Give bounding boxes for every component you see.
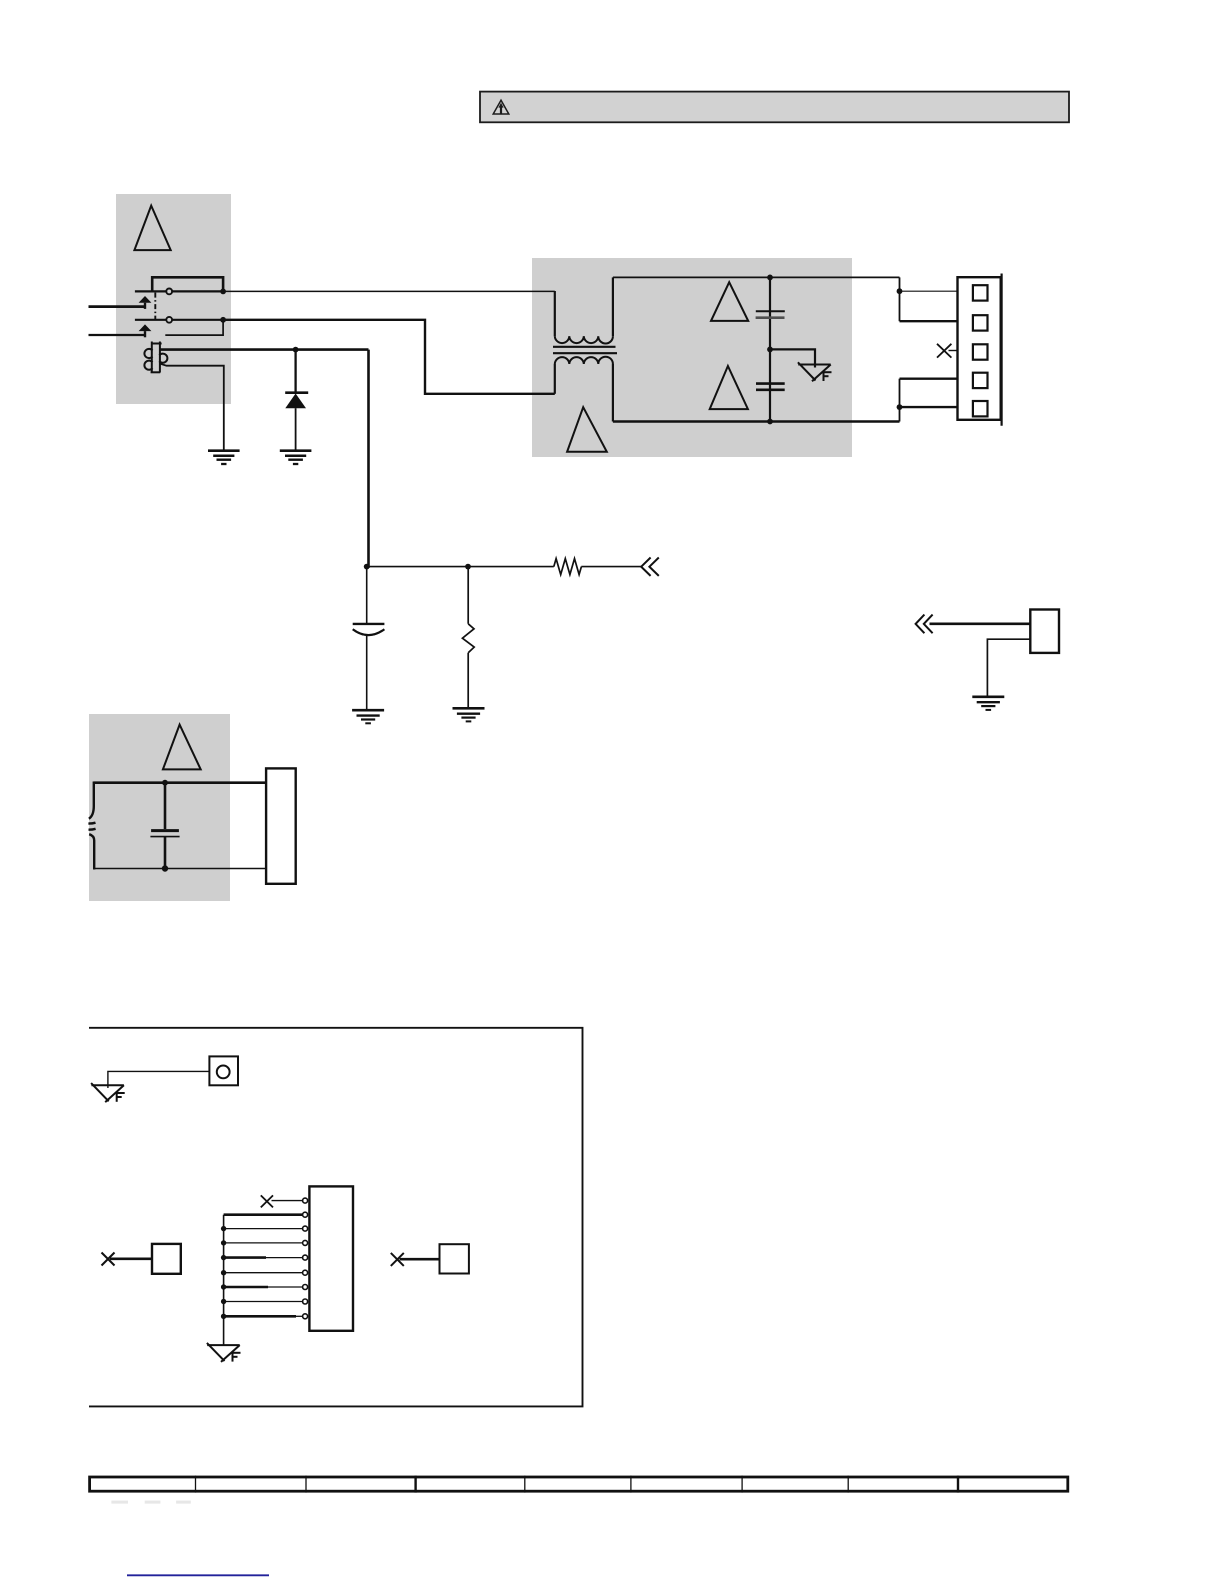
module block A1 [1030,610,1059,653]
wire: J3 pin8 [224,1301,303,1303]
capacitor C3 [353,567,385,710]
wire: ground bus vertical [223,1215,225,1345]
capacitor C2 [756,349,785,421]
warning triangle 3 [710,366,748,409]
warning banner box [480,92,1069,123]
switch S1 mechanical bracket [152,277,223,291]
gray region: mains input block [116,194,231,404]
node: switch output 1 [220,289,226,295]
switch S1 pole 1 [135,289,223,295]
wire: J3 pin1 [272,1200,303,1202]
wire: module ground leg [987,639,1030,696]
connector J1 pin 2 [973,315,988,330]
connector J1 pin 3 [973,344,988,359]
connector J2 body [266,768,296,883]
wire: output bottom rail [613,420,900,422]
node: bus junction pin5 [221,1255,226,1260]
wire: bottom rail to connector pins [900,379,958,422]
switch S1 lower bracket [165,320,223,335]
wire: line input L [89,305,147,308]
node: bus junction pin9 [221,1314,226,1319]
block: right small square [440,1244,469,1273]
faint scan marks [111,1501,190,1504]
connector J1 body [958,277,1001,420]
ground: earth under diode D1 [280,451,312,464]
capacitor C4 [150,783,179,869]
capacitor C1 [756,277,785,349]
control board outline box (open on left) [89,1028,583,1407]
wire: J3 pin6 [224,1272,303,1274]
inductor L1 common-mode choke [144,342,167,373]
wire: J3 pin7 [224,1286,303,1289]
wire: output top rail [613,276,900,278]
ground: frame ground FG3 [207,1343,241,1362]
wire: J3 pin2 to bus [224,1213,303,1216]
off-page connector chevron left [641,558,659,576]
node: bus junction pin4 [221,1240,226,1245]
warning triangle 4 [567,407,607,452]
node: bus junction pin6 [221,1270,226,1275]
connector J3 pin circles [303,1198,308,1319]
wire: J3 pin4 [224,1242,303,1244]
connector J1 pin 4 [973,373,988,388]
resistor R2 (varistor) [462,567,474,708]
wire: top rail to connector pins [900,277,958,321]
wire: R1 to off-page [581,566,642,568]
wire: off-page to module [930,622,1031,625]
switch S1 pole 2 [135,317,223,323]
block: left small square [152,1244,181,1274]
ground: earth under R2 [453,708,485,721]
title block table [90,1476,1068,1493]
wire: J3 pin9 [224,1315,303,1318]
wire: sense net horizontal [367,566,554,568]
node: cap branch [364,564,370,570]
warning triangle icon [493,100,509,114]
line input L arrow [139,296,152,309]
node: bus junction pin7 [221,1284,226,1289]
inductor L2 at page edge [88,782,95,870]
ground: earth under C3 [352,710,384,723]
off-page connector chevron right [916,615,933,634]
gray region: inlet filter block [89,714,230,901]
wire: FG2 to stud [108,1071,209,1088]
connector J3 body [309,1186,353,1330]
node: bus junction pin8 [221,1299,226,1304]
wire: choke earth leg [161,364,224,451]
ground: earth under module [972,697,1004,710]
resistor R1 [554,559,582,575]
connector J1 pin 5 [973,401,988,416]
ground: frame ground FG2 [91,1083,125,1102]
connector J1 right bar [1000,274,1002,426]
wire: switch pole2 to transformer [223,320,555,394]
wire: J3 pin3 [224,1228,303,1230]
wire: choke output to node [161,350,369,568]
warning triangle 5 [163,725,201,770]
connector J1 pin 1 [973,285,988,300]
wire: J3 pin5 [224,1256,303,1259]
no-connect X left [102,1253,115,1266]
gray region: transformer block [532,258,852,457]
node: top rail junction [767,275,773,281]
hyperlink underline [127,1574,269,1576]
mounting stud (box with circle) [209,1056,238,1085]
node: connector pin 1/2 tie [897,288,903,294]
node: junction at diode [293,347,299,353]
node: connector pin 4/5 tie [897,404,903,410]
wire: line input N [89,334,147,336]
node: bus junction pin3 [221,1226,226,1231]
no-connect X at connector pin 3 [937,344,958,358]
ground: frame ground FG1 [798,362,832,381]
wire: right X to block [400,1258,440,1261]
node: mid cap junction [767,347,773,353]
node: resistor branch [465,564,471,570]
wire: left X to block [110,1257,152,1260]
transformer T1 [553,277,617,421]
node: bottom rail junction [767,419,773,425]
node: switch output 2 [220,317,226,323]
node: inlet cap top [162,780,168,786]
warning triangle 1 [134,206,170,251]
line input N arrow [139,324,152,337]
warning triangle 2 [711,282,748,321]
wire: inlet bottom [94,868,267,870]
diode D1 [285,350,308,451]
no-connect X right [391,1253,404,1266]
ground: earth under choke [208,451,240,464]
wire: cap midpoint to frame ground [770,349,815,367]
no-connect X at J3 pin 1 [261,1195,273,1207]
wire: switch pole1 to transformer [223,290,555,292]
switch S1 linkage (dashed) [154,293,156,320]
node: inlet cap bottom [162,865,168,871]
wire: inlet top [94,781,267,784]
